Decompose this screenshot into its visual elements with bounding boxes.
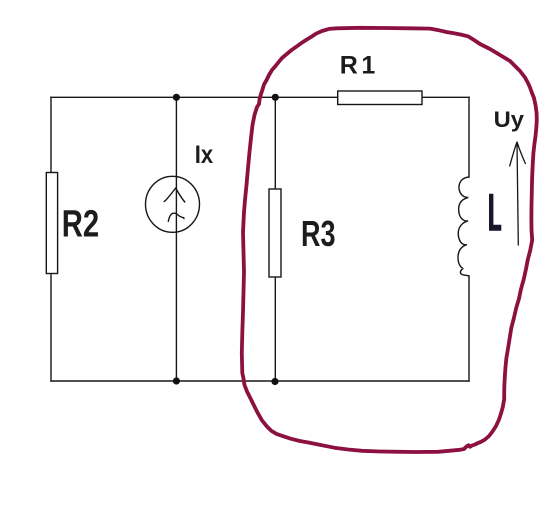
wire left upper (to R2)	[50, 97, 52, 172]
junction node bottom-left	[173, 377, 180, 384]
junction node bottom-right	[271, 378, 278, 385]
junction node top-right	[272, 94, 279, 101]
resistor R3	[269, 189, 281, 277]
label R2	[62, 203, 99, 246]
label L	[489, 194, 501, 231]
label Uy	[494, 107, 525, 132]
resistor R2	[46, 173, 57, 274]
arrow Uy	[510, 142, 526, 245]
label R1	[340, 52, 379, 80]
junction node top-left	[173, 94, 180, 101]
wire top: R1 right to right corner	[422, 96, 469, 98]
svg-text:R3: R3	[301, 213, 335, 254]
current source Ix circle	[146, 176, 200, 232]
wire Ix branch	[175, 97, 177, 381]
svg-text:Ix: Ix	[195, 141, 213, 169]
inductor L	[458, 177, 469, 278]
wire bottom	[51, 380, 469, 382]
current source Ix tail squiggle	[168, 213, 184, 221]
svg-text:R2: R2	[62, 203, 99, 246]
svg-text:R1: R1	[340, 52, 379, 80]
marked region loop (freehand highlight)	[242, 28, 537, 452]
svg-text:Uy: Uy	[494, 107, 525, 132]
label R3	[301, 213, 335, 254]
wire left lower (from R2)	[50, 274, 52, 382]
wire top: left corner to R1 left	[51, 96, 338, 98]
label Ix	[195, 141, 213, 169]
current source Ix arrow head	[164, 188, 185, 202]
resistor R1	[338, 91, 422, 105]
wire right upper (to L)	[468, 97, 470, 177]
wire right lower (from L)	[468, 278, 470, 381]
wire R3 branch upper	[274, 97, 276, 189]
wire R3 branch lower	[274, 277, 276, 381]
